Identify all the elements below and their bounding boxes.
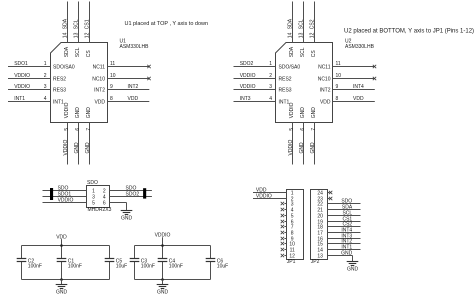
svg-text:GND: GND bbox=[157, 290, 169, 296]
svg-text:VDDIO: VDDIO bbox=[64, 102, 70, 118]
svg-text:GND: GND bbox=[310, 142, 316, 154]
svg-text:NC10: NC10 bbox=[92, 77, 105, 83]
wire net CS1 to U1 pin 12 (top) bbox=[85, 2, 93, 58]
svg-text:VDD: VDD bbox=[353, 96, 364, 102]
svg-text:2: 2 bbox=[44, 73, 47, 79]
wire net VDD to JP1 pin 1 bbox=[253, 187, 287, 193]
svg-text:13: 13 bbox=[74, 32, 80, 38]
svg-text:NC11: NC11 bbox=[318, 65, 331, 71]
svg-text:RES3: RES3 bbox=[53, 88, 66, 94]
JP1 pin 6 no-connect bbox=[281, 220, 287, 223]
svg-text:9: 9 bbox=[110, 84, 113, 90]
svg-text:10: 10 bbox=[110, 73, 116, 79]
svg-text:7: 7 bbox=[86, 128, 92, 131]
svg-text:VDDIO: VDDIO bbox=[58, 197, 74, 203]
svg-text:ASM330LHB: ASM330LHB bbox=[345, 44, 375, 50]
svg-text:SCL: SCL bbox=[75, 47, 81, 57]
wire net GND to U1 pin 7 (bottom) bbox=[85, 107, 92, 165]
JP1 pin 7 no-connect bbox=[281, 225, 287, 228]
JP1 pin 9 no-connect bbox=[281, 237, 287, 240]
svg-text:GND: GND bbox=[56, 290, 68, 296]
svg-text:10uF: 10uF bbox=[116, 264, 127, 270]
JP2 pin 24 no-connect bbox=[328, 191, 333, 194]
capacitor C2 100nF bbox=[17, 246, 42, 280]
svg-text:VDDIO: VDDIO bbox=[14, 84, 30, 90]
svg-text:NC10: NC10 bbox=[318, 77, 331, 83]
wire net SCL to U2 pin 13 (top) bbox=[299, 2, 307, 58]
svg-text:1: 1 bbox=[44, 61, 47, 67]
svg-text:RES2: RES2 bbox=[53, 77, 66, 83]
svg-text:11: 11 bbox=[336, 61, 341, 67]
svg-text:10: 10 bbox=[336, 73, 342, 79]
capacitor C4 100nF bbox=[158, 246, 183, 280]
wire net INT2 to JP2 pin 15 bbox=[328, 238, 361, 244]
connector JP2 body bbox=[311, 190, 328, 260]
wire U2 pin 11 no-connect bbox=[318, 61, 376, 70]
wire net INT2 to U1 pin 9 bbox=[94, 84, 149, 93]
junction dots bbox=[60, 244, 63, 247]
wire net INT1 to U1 pin 4 bbox=[8, 96, 64, 105]
JP1 pin 4 no-connect bbox=[281, 208, 287, 211]
svg-text:5: 5 bbox=[92, 201, 95, 207]
svg-text:VDD: VDD bbox=[128, 96, 139, 102]
svg-text:INT1: INT1 bbox=[279, 100, 290, 106]
JP2 pin 23 no-connect bbox=[328, 197, 333, 200]
wire U1 pin 10 no-connect bbox=[92, 73, 150, 82]
svg-text:100nF: 100nF bbox=[169, 264, 183, 270]
power net VDD label bbox=[56, 234, 67, 245]
wire net SDO2 to MHDR pin 4 bbox=[110, 191, 152, 197]
svg-text:VDDIO: VDDIO bbox=[256, 193, 272, 199]
wire net VDDIO to U2 pin 2 bbox=[234, 73, 292, 82]
wire net VDDIO to MHDR pin 5 bbox=[43, 197, 87, 203]
designator U2 bbox=[345, 38, 375, 50]
capacitor C5 10uF bbox=[105, 246, 128, 280]
svg-text:SDO2: SDO2 bbox=[126, 191, 140, 197]
capacitor C1 100nF bbox=[57, 246, 82, 280]
wire net VDDIO to JP1 pin 2 bbox=[253, 193, 287, 199]
wire rail bottom bbox=[22, 279, 110, 281]
IC U2 ASM330LHB body bbox=[276, 43, 333, 123]
svg-text:7: 7 bbox=[311, 128, 317, 131]
svg-text:6: 6 bbox=[103, 201, 106, 207]
wire net INT4 to JP2 pin 17 bbox=[328, 227, 361, 233]
wire U1 pin 11 no-connect bbox=[93, 61, 151, 70]
wire net SDA to U1 pin 14 (top) bbox=[63, 2, 71, 58]
svg-text:9: 9 bbox=[336, 84, 339, 90]
wire net VDDIO to U1 pin 5 (bottom) bbox=[63, 102, 70, 164]
svg-text:6: 6 bbox=[75, 128, 81, 131]
svg-text:3: 3 bbox=[44, 84, 47, 90]
ground at MHDR2X3 pin 6 bbox=[121, 211, 133, 222]
svg-text:VDD: VDD bbox=[320, 100, 331, 106]
svg-text:GND: GND bbox=[299, 142, 305, 154]
svg-text:GND: GND bbox=[74, 142, 80, 154]
svg-text:ASM330LHB: ASM330LHB bbox=[120, 44, 150, 50]
wire net SCL to U1 pin 13 (top) bbox=[74, 2, 82, 58]
JP1 pin 10 no-connect bbox=[281, 242, 287, 245]
svg-text:INT1: INT1 bbox=[53, 100, 64, 106]
svg-text:2: 2 bbox=[269, 73, 272, 79]
wire net SDO1 to MHDR pin 3 bbox=[43, 191, 87, 197]
svg-text:4: 4 bbox=[269, 96, 272, 102]
wire net SDO to JP2 pin 22 bbox=[328, 198, 361, 204]
svg-text:CS: CS bbox=[86, 50, 92, 58]
svg-text:U2 placed at BOTTOM, Y axis to: U2 placed at BOTTOM, Y axis to JP1 (Pins… bbox=[344, 29, 474, 35]
wire net GND to U2 pin 7 (bottom) bbox=[310, 107, 317, 165]
wire net GND to JP2 pin 13 bbox=[328, 250, 353, 261]
wire net CS1 to JP2 pin 19 bbox=[328, 216, 361, 222]
wire net SCL to JP2 pin 20 bbox=[328, 210, 361, 216]
svg-text:8: 8 bbox=[110, 96, 113, 102]
capacitor C6 10uF bbox=[206, 246, 229, 280]
svg-text:SDO: SDO bbox=[87, 180, 98, 186]
svg-text:6: 6 bbox=[300, 128, 306, 131]
svg-text:SDA: SDA bbox=[64, 46, 70, 57]
svg-text:MHDR2X3: MHDR2X3 bbox=[88, 207, 112, 213]
svg-text:VDDIO: VDDIO bbox=[288, 140, 294, 156]
svg-text:VDDIO: VDDIO bbox=[289, 102, 295, 118]
wire VDDIO rail top bbox=[135, 245, 211, 247]
IC U1 ASM330LHB body bbox=[51, 43, 108, 123]
wire MHDR pin 6 to ground bbox=[110, 203, 127, 211]
svg-text:10uF: 10uF bbox=[217, 264, 228, 270]
wire U2 pin 10 no-connect bbox=[318, 73, 376, 82]
svg-text:SDA: SDA bbox=[289, 46, 295, 57]
svg-text:14: 14 bbox=[63, 32, 69, 38]
svg-text:INT3: INT3 bbox=[240, 96, 251, 102]
wire net SDO2 to U2 pin 1 bbox=[234, 61, 301, 70]
svg-text:VDDIO: VDDIO bbox=[240, 73, 256, 79]
ground below VDD bank bbox=[56, 285, 68, 296]
JP1 pin 3 no-connect bbox=[281, 202, 287, 205]
wire net VDDIO to U1 pin 3 bbox=[8, 84, 66, 93]
wire net INT3 to U2 pin 4 bbox=[234, 96, 290, 105]
svg-text:4: 4 bbox=[44, 96, 47, 102]
svg-text:INT1: INT1 bbox=[14, 96, 25, 102]
svg-text:GND: GND bbox=[85, 142, 91, 154]
svg-text:12: 12 bbox=[85, 32, 91, 38]
svg-text:SDO2: SDO2 bbox=[240, 61, 254, 67]
wire net INT3 to JP2 pin 16 bbox=[328, 233, 361, 239]
svg-text:RES2: RES2 bbox=[279, 77, 292, 83]
svg-text:12: 12 bbox=[310, 32, 316, 38]
capacitor C3 100nF bbox=[130, 246, 155, 280]
svg-text:GND: GND bbox=[75, 107, 81, 119]
svg-text:100nF: 100nF bbox=[68, 264, 82, 270]
wire net VDD to U2 pin 8 bbox=[320, 96, 375, 105]
net tie bar left bbox=[50, 188, 53, 200]
ground below VDDIO bank bbox=[157, 285, 169, 296]
wire net VDDIO to U2 pin 3 bbox=[234, 84, 292, 93]
svg-text:14: 14 bbox=[288, 32, 294, 38]
svg-text:RES3: RES3 bbox=[279, 88, 292, 94]
svg-text:SDO/SA0: SDO/SA0 bbox=[53, 65, 75, 71]
svg-text:8: 8 bbox=[336, 96, 339, 102]
svg-text:13: 13 bbox=[299, 32, 305, 38]
wire net VDDIO to U2 pin 5 (bottom) bbox=[288, 102, 295, 164]
JP1 pin 5 no-connect bbox=[281, 214, 287, 217]
svg-text:CS2: CS2 bbox=[310, 19, 316, 29]
wire net SDO1 to U1 pin 1 bbox=[8, 61, 75, 70]
designator U1 bbox=[120, 38, 150, 50]
wire net GND to U1 pin 6 (bottom) bbox=[74, 107, 81, 165]
svg-text:CS1: CS1 bbox=[85, 19, 91, 29]
connector JP1 body bbox=[287, 190, 304, 260]
svg-text:VDD: VDD bbox=[94, 100, 105, 106]
wire VDD rail top bbox=[22, 245, 110, 247]
wire rail bottom bbox=[135, 279, 211, 281]
svg-text:NC11: NC11 bbox=[93, 65, 106, 71]
svg-text:U1 placed at TOP , Y axis to d: U1 placed at TOP , Y axis to down bbox=[125, 21, 209, 27]
wire net INT4 to U2 pin 9 bbox=[320, 84, 375, 93]
connector MHDR2X3 body bbox=[87, 186, 110, 208]
svg-text:5: 5 bbox=[64, 128, 70, 131]
svg-text:5: 5 bbox=[289, 128, 295, 131]
JP1 pin 8 no-connect bbox=[281, 231, 287, 234]
svg-text:SDA: SDA bbox=[288, 18, 294, 29]
svg-text:SDO/SA0: SDO/SA0 bbox=[279, 65, 301, 71]
net tie bar right bbox=[143, 188, 146, 198]
JP1 pin 12 no-connect bbox=[281, 254, 287, 257]
svg-text:JP2: JP2 bbox=[311, 259, 320, 265]
wire net SDO to MHDR pin 2 bbox=[110, 185, 152, 191]
svg-text:GND: GND bbox=[311, 107, 317, 119]
power net VDDIO label bbox=[155, 232, 171, 245]
wire net VDD to U1 pin 8 bbox=[94, 96, 149, 105]
wire net SDA to JP2 pin 21 bbox=[328, 204, 361, 210]
svg-text:1: 1 bbox=[269, 61, 272, 67]
svg-text:3: 3 bbox=[269, 84, 272, 90]
wire to ground bbox=[162, 280, 164, 285]
svg-text:100nF: 100nF bbox=[28, 264, 42, 270]
svg-text:INT4: INT4 bbox=[353, 84, 364, 90]
wire net SDO to MHDR pin 1 bbox=[43, 185, 87, 191]
svg-text:INT2: INT2 bbox=[94, 88, 105, 94]
svg-text:JP1: JP1 bbox=[287, 259, 296, 265]
wire to ground bbox=[61, 280, 63, 285]
svg-text:GND: GND bbox=[300, 107, 306, 119]
svg-text:SCL: SCL bbox=[299, 19, 305, 29]
wire net CS2 to U2 pin 12 (top) bbox=[310, 2, 318, 58]
svg-text:CS: CS bbox=[311, 50, 317, 58]
svg-text:SDA: SDA bbox=[63, 18, 69, 29]
svg-text:GND: GND bbox=[121, 216, 133, 222]
svg-text:INT2: INT2 bbox=[320, 88, 331, 94]
JP1 pin 11 no-connect bbox=[281, 248, 287, 251]
svg-text:SCL: SCL bbox=[74, 19, 80, 29]
svg-text:100nF: 100nF bbox=[141, 264, 155, 270]
wire net INT1 to JP2 pin 14 bbox=[328, 244, 361, 250]
wire net VDDIO to U1 pin 2 bbox=[8, 73, 66, 82]
svg-text:SDO1: SDO1 bbox=[14, 61, 28, 67]
wire net GND to U2 pin 6 (bottom) bbox=[299, 107, 306, 165]
svg-text:GND: GND bbox=[86, 107, 92, 119]
svg-text:11: 11 bbox=[110, 61, 115, 67]
svg-text:INT2: INT2 bbox=[128, 84, 139, 90]
svg-text:GND: GND bbox=[347, 267, 359, 273]
svg-text:VDDIO: VDDIO bbox=[240, 84, 256, 90]
svg-text:GND: GND bbox=[341, 250, 353, 256]
svg-text:SCL: SCL bbox=[300, 47, 306, 57]
svg-text:VDDIO: VDDIO bbox=[63, 140, 69, 156]
junction dots bbox=[161, 244, 164, 247]
wire net SDA to U2 pin 14 (top) bbox=[288, 2, 296, 58]
ground at JP2 pin 13 bbox=[347, 262, 359, 273]
wire net CS2 to JP2 pin 18 bbox=[328, 221, 361, 227]
svg-text:VDDIO: VDDIO bbox=[14, 73, 30, 79]
